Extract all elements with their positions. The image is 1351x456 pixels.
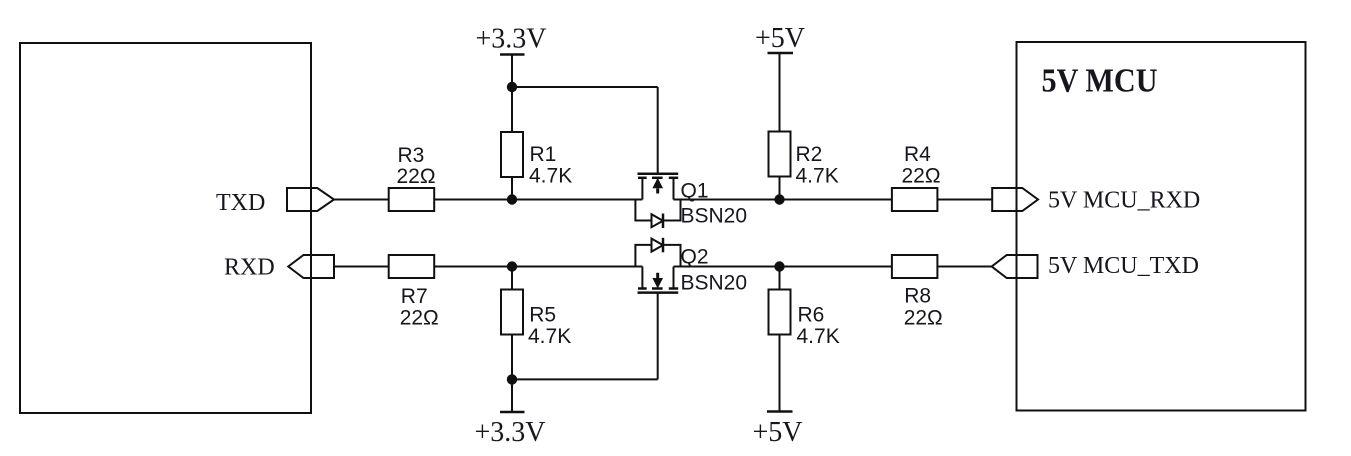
svg-text:R3: R3 <box>398 144 425 167</box>
svg-text:22Ω: 22Ω <box>400 307 439 330</box>
svg-text:5V MCU_TXD: 5V MCU_TXD <box>1048 253 1199 279</box>
svg-text:TXD: TXD <box>216 190 265 216</box>
svg-text:Q1: Q1 <box>681 179 709 202</box>
svg-text:4.7K: 4.7K <box>796 165 839 188</box>
svg-text:5V MCU_RXD: 5V MCU_RXD <box>1048 188 1200 214</box>
svg-text:22Ω: 22Ω <box>902 165 941 188</box>
svg-text:+5V: +5V <box>752 417 802 448</box>
svg-text:22Ω: 22Ω <box>904 307 943 330</box>
svg-text:4.7K: 4.7K <box>797 325 840 348</box>
svg-text:R8: R8 <box>904 285 931 308</box>
svg-text:5V MCU: 5V MCU <box>1042 63 1158 100</box>
svg-text:+5V: +5V <box>755 23 805 54</box>
svg-text:+3.3V: +3.3V <box>475 24 546 55</box>
svg-text:R4: R4 <box>904 143 931 166</box>
svg-text:R1: R1 <box>530 143 557 166</box>
svg-text:4.7K: 4.7K <box>529 165 572 188</box>
svg-text:RXD: RXD <box>224 255 275 281</box>
svg-text:BSN20: BSN20 <box>681 204 748 227</box>
svg-text:R6: R6 <box>798 304 825 327</box>
svg-text:22Ω: 22Ω <box>397 165 436 188</box>
svg-text:R2: R2 <box>796 143 823 166</box>
svg-text:4.7K: 4.7K <box>528 325 571 348</box>
svg-text:R5: R5 <box>529 304 556 327</box>
svg-text:+3.3V: +3.3V <box>474 417 545 448</box>
svg-text:Q2: Q2 <box>681 245 709 268</box>
svg-text:BSN20: BSN20 <box>681 272 748 295</box>
svg-text:R7: R7 <box>401 285 428 308</box>
